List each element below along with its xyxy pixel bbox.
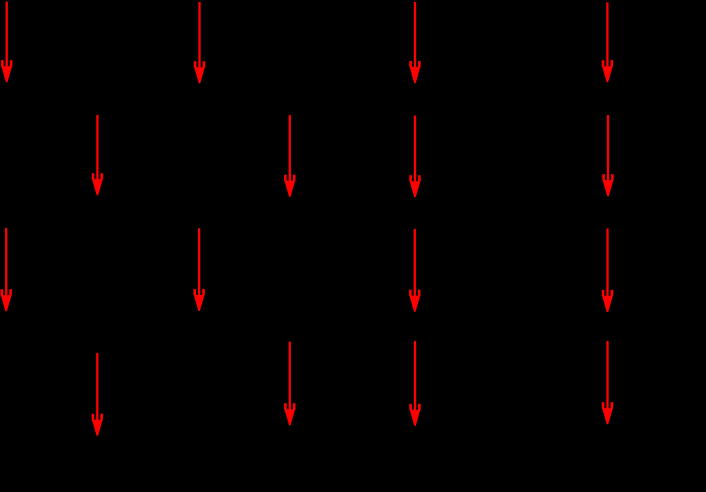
arrow row4 col1 <box>92 353 103 436</box>
arrow row3 col1 <box>1 228 12 311</box>
arrow row1 col4 <box>602 2 613 82</box>
arrow row4 col3 <box>409 341 420 426</box>
arrow row3 col2 <box>193 228 204 311</box>
arrow row3 col4 <box>602 228 613 312</box>
arrow row2 col4 <box>602 115 613 196</box>
arrow row2 col2 <box>284 115 295 197</box>
arrow row4 col2 <box>284 342 295 426</box>
arrow row1 col3 <box>409 2 420 83</box>
arrow row4 col4 <box>602 341 613 424</box>
arrow row2 col3 <box>409 116 420 198</box>
arrow row1 col1 <box>1 2 12 83</box>
arrow row1 col2 <box>194 2 205 83</box>
arrow row2 col1 <box>92 115 103 195</box>
arrow row3 col3 <box>409 229 420 312</box>
